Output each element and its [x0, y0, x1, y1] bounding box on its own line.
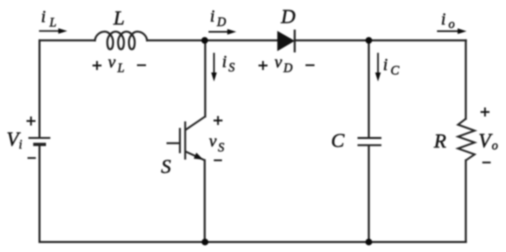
- resistor R zigzag: [458, 119, 475, 161]
- svg-text:i: i: [41, 7, 46, 26]
- svg-text:L: L: [117, 61, 125, 75]
- label Vi with polarity: [7, 117, 36, 159]
- node junction bottom at capacitor: [365, 239, 372, 246]
- wire transistor emitter vertical: [204, 160, 206, 242]
- svg-text:v: v: [108, 53, 116, 72]
- node junction bottom at transistor: [202, 239, 209, 246]
- wire transistor collector vertical: [204, 40, 206, 116]
- svg-text:S: S: [229, 61, 236, 75]
- svg-text:i: i: [210, 7, 215, 26]
- current arrow iL: [39, 28, 67, 34]
- svg-text:D: D: [280, 6, 296, 28]
- svg-text:C: C: [391, 63, 400, 78]
- node junction top at capacitor: [365, 37, 372, 44]
- label iD: [210, 7, 226, 30]
- label vL with polarity: [93, 53, 147, 76]
- wire capacitor branch lower: [368, 146, 370, 242]
- svg-text:v: v: [275, 53, 283, 72]
- label io: [441, 10, 455, 32]
- current arrow io: [437, 28, 467, 34]
- svg-text:i: i: [222, 52, 227, 71]
- wire top-left horizontal: [40, 39, 96, 41]
- svg-text:i: i: [383, 55, 388, 74]
- svg-text:D: D: [283, 61, 293, 75]
- wire right vertical upper (corner to resistor): [465, 40, 467, 118]
- transistor S (IGBT): [167, 117, 206, 161]
- diode D: [278, 30, 295, 53]
- wire left vertical lower (battery to bottom): [39, 146, 41, 242]
- label iC: [383, 55, 400, 78]
- wire bottom horizontal: [40, 241, 466, 243]
- current arrow iD: [209, 29, 237, 35]
- svg-text:C: C: [331, 130, 345, 152]
- svg-text:v: v: [209, 132, 217, 151]
- svg-text:i: i: [19, 138, 23, 152]
- transistor emitter arrowhead: [194, 153, 204, 160]
- svg-text:S: S: [218, 141, 225, 155]
- node junction top at transistor: [201, 37, 208, 44]
- svg-text:i: i: [441, 10, 446, 29]
- wire right vertical lower (resistor to bottom): [465, 160, 467, 242]
- battery source Vi: [28, 138, 50, 145]
- current arrow iS (down): [211, 53, 217, 82]
- svg-text:R: R: [433, 131, 446, 153]
- label iS: [222, 52, 236, 75]
- wire top middle (coil to diode): [147, 39, 278, 41]
- inductor L (coil): [95, 32, 147, 50]
- svg-text:o: o: [449, 17, 455, 31]
- svg-text:o: o: [492, 139, 498, 153]
- label vD with polarity: [259, 53, 315, 76]
- current arrow iC (down): [375, 53, 381, 82]
- capacitor C plates: [358, 138, 382, 145]
- label Vo with polarity: [479, 108, 499, 163]
- wire capacitor branch upper: [368, 40, 370, 137]
- wire left vertical upper (to battery): [39, 40, 41, 137]
- svg-text:L: L: [113, 8, 125, 30]
- svg-text:D: D: [216, 15, 226, 29]
- label iL: [41, 7, 57, 30]
- label vS with polarity: [209, 116, 225, 160]
- wire top right (diode to corner): [295, 39, 466, 41]
- svg-text:S: S: [161, 156, 171, 178]
- svg-text:L: L: [49, 16, 57, 30]
